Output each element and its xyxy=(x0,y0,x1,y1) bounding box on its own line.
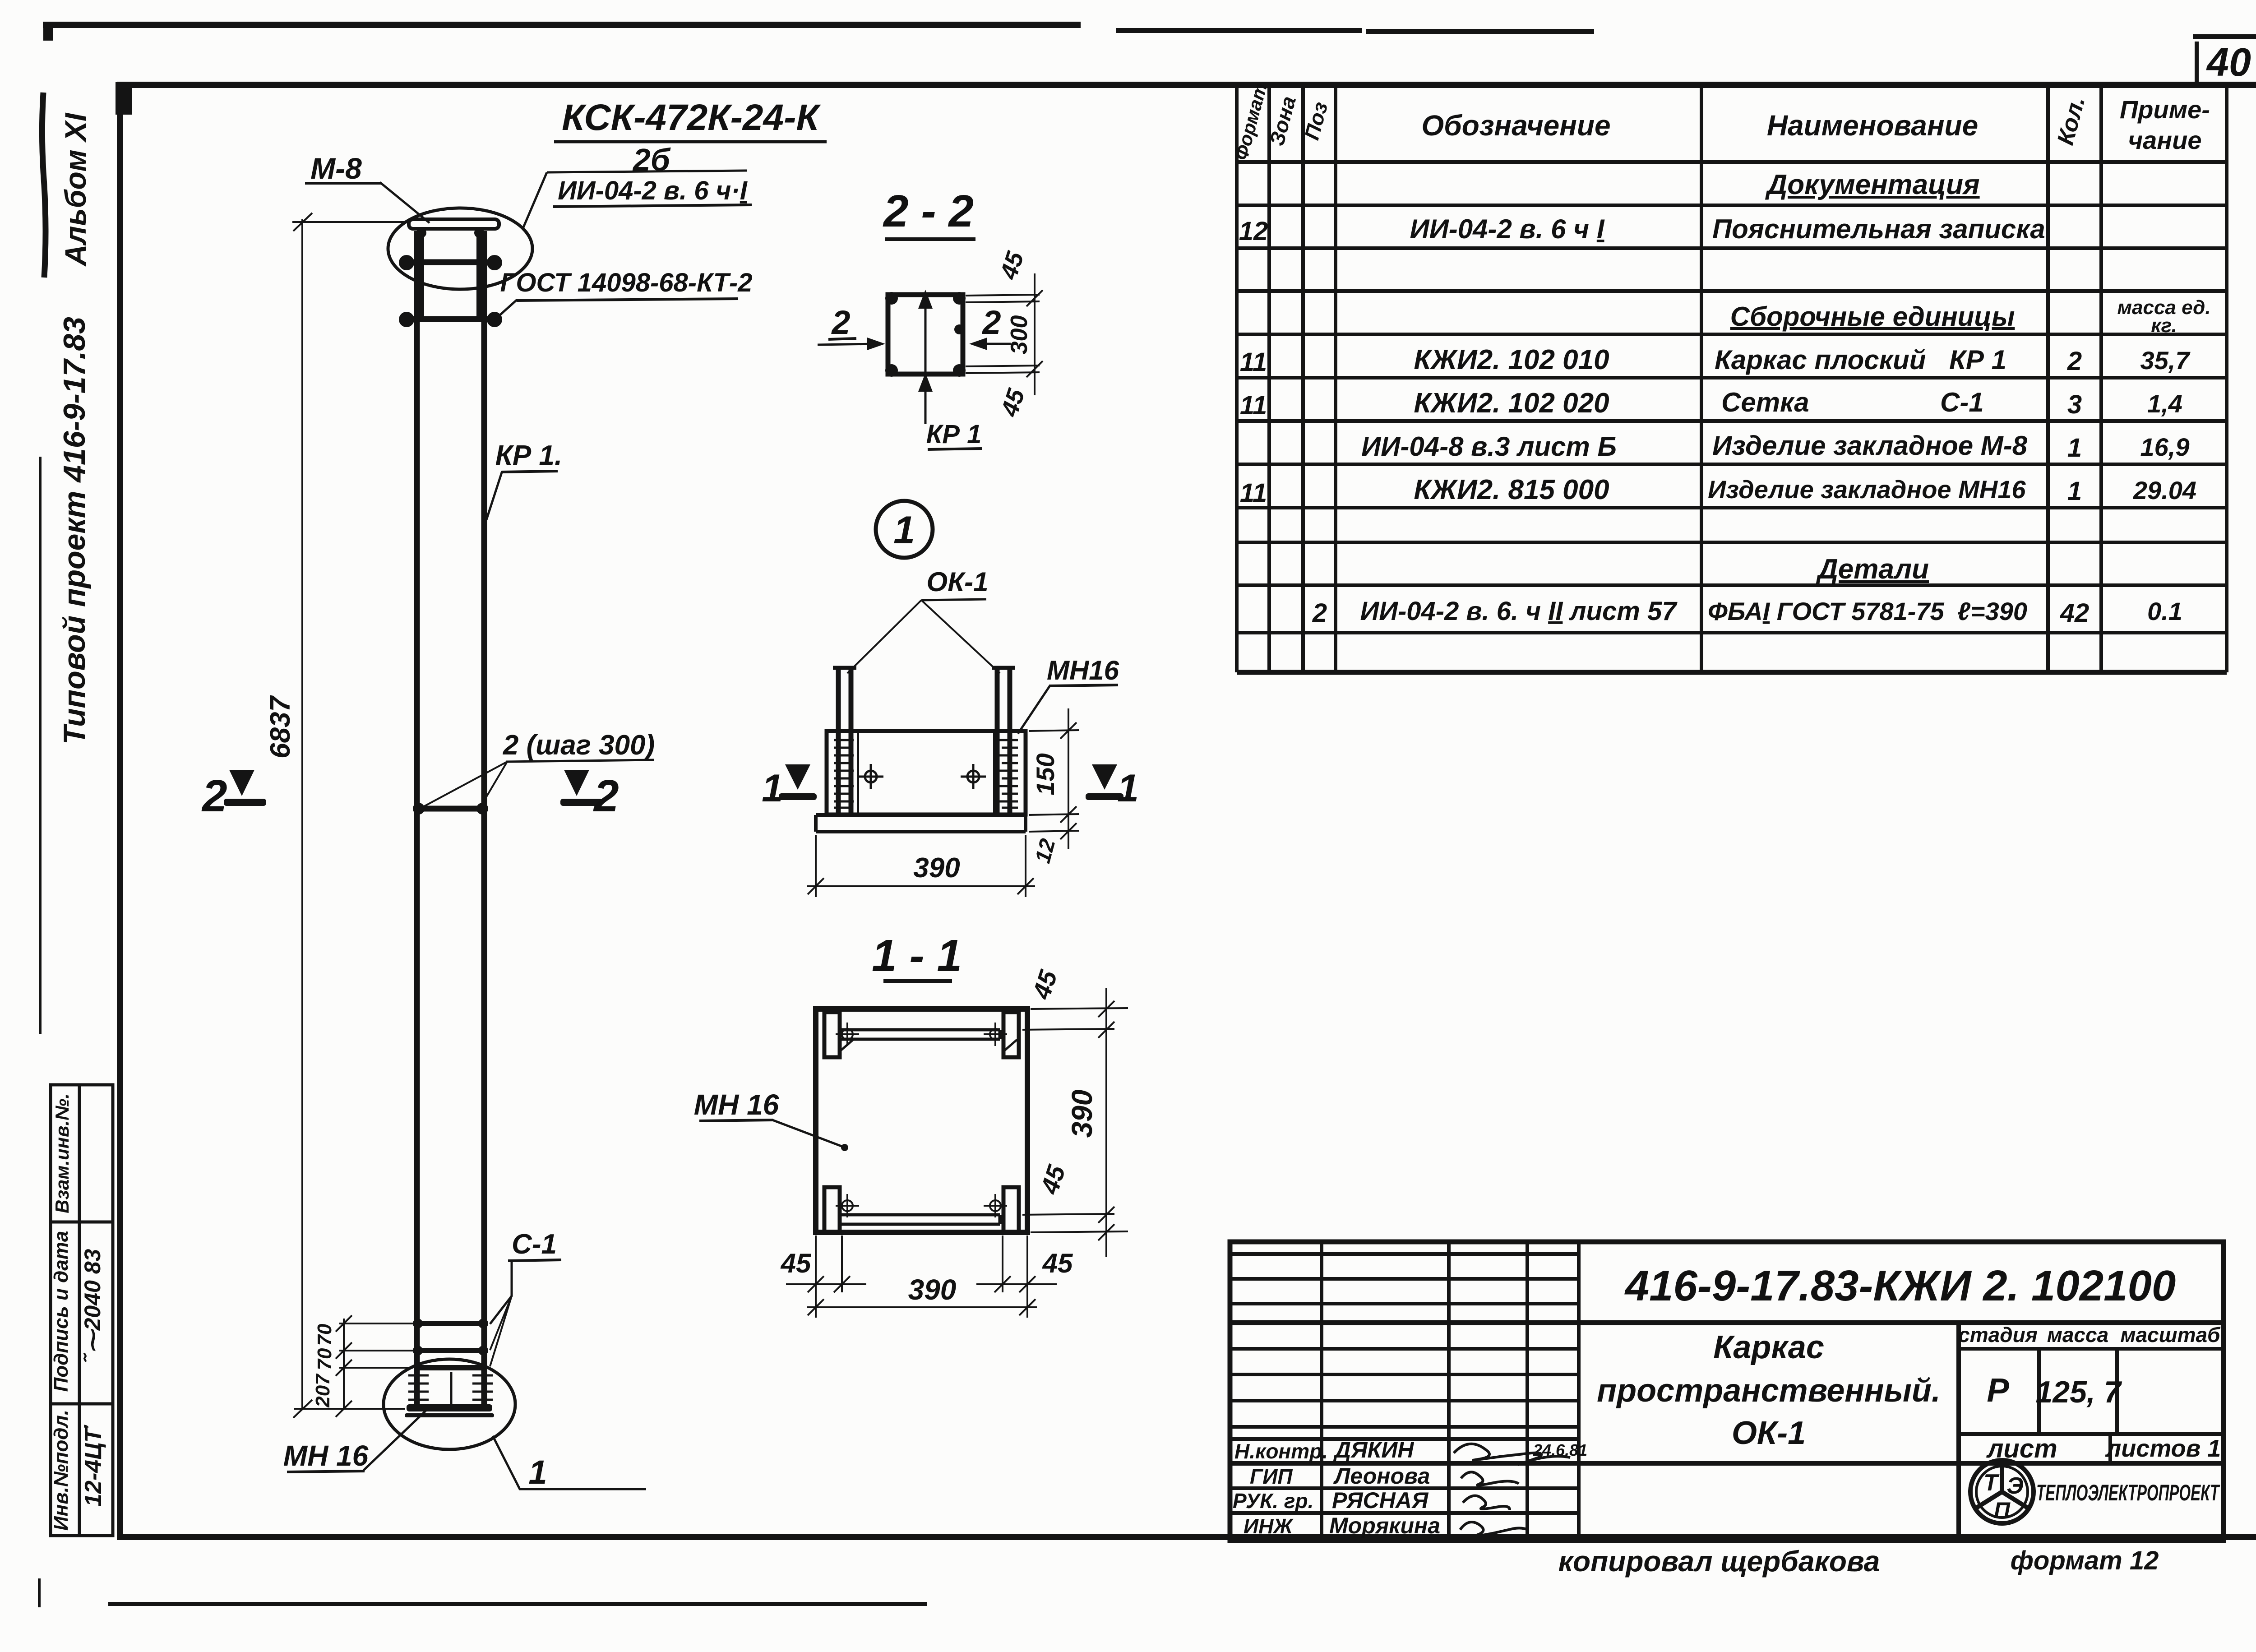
svg-text:ИИ-04-8 в.3 лист Б: ИИ-04-8 в.3 лист Б xyxy=(1361,431,1617,462)
svg-text:КР 1.: КР 1. xyxy=(495,440,562,471)
svg-text:Пояснительная записка: Пояснительная записка xyxy=(1712,214,2045,244)
svg-text:МН 16: МН 16 xyxy=(694,1088,779,1121)
svg-text:масса: масса xyxy=(2047,1323,2108,1347)
svg-text:масштаб: масштаб xyxy=(2120,1323,2221,1347)
svg-text:Изделие закладное М-8: Изделие закладное М-8 xyxy=(1712,430,2028,461)
svg-text:Т: Т xyxy=(1983,1470,2000,1496)
svg-text:ДЯКИН: ДЯКИН xyxy=(1333,1437,1414,1462)
svg-text:2: 2 xyxy=(981,304,1001,341)
svg-text:РУК. гр.: РУК. гр. xyxy=(1233,1489,1313,1513)
svg-text:0.1: 0.1 xyxy=(2147,597,2182,625)
svg-text:Морякина: Морякина xyxy=(1329,1513,1440,1538)
svg-text:45: 45 xyxy=(781,1248,812,1278)
svg-text:ИИ-04-2 в. 6 ч I: ИИ-04-2 в. 6 ч I xyxy=(1410,214,1605,244)
svg-text:Инв.№подл.: Инв.№подл. xyxy=(50,1410,72,1531)
svg-text:1: 1 xyxy=(2067,433,2082,463)
svg-text:ТЕПЛОЭЛЕКТРОПРОЕКТ: ТЕПЛОЭЛЕКТРОПРОЕКТ xyxy=(2036,1480,2220,1505)
svg-text:3: 3 xyxy=(2067,390,2082,419)
svg-text:1: 1 xyxy=(2067,477,2082,506)
svg-text:КЖИ2. 102 020: КЖИ2. 102 020 xyxy=(1414,388,1609,419)
svg-text:Каркас плоский: Каркас плоский xyxy=(1715,345,1926,375)
svg-text:207: 207 xyxy=(312,1373,334,1408)
svg-text:МН16: МН16 xyxy=(1047,655,1119,685)
svg-text:С-1: С-1 xyxy=(512,1229,557,1260)
svg-text:ОК-1: ОК-1 xyxy=(927,567,989,597)
svg-text:1: 1 xyxy=(893,509,915,552)
svg-text:42: 42 xyxy=(2060,598,2090,628)
svg-text:45: 45 xyxy=(1042,1248,1073,1278)
svg-text:КЖИ2. 102 010: КЖИ2. 102 010 xyxy=(1414,344,1609,375)
svg-text:Приме-: Приме- xyxy=(2120,95,2210,124)
svg-text:КР 1: КР 1 xyxy=(926,420,982,449)
svg-text:РЯСНАЯ: РЯСНАЯ xyxy=(1332,1488,1429,1513)
svg-text:70: 70 xyxy=(314,1348,336,1370)
svg-text:2 (шаг 300): 2 (шаг 300) xyxy=(503,730,655,761)
svg-text:кг.: кг. xyxy=(2151,315,2177,337)
svg-text:11: 11 xyxy=(1240,478,1267,508)
svg-text:Документация: Документация xyxy=(1765,169,1979,200)
svg-text:1: 1 xyxy=(762,767,783,810)
svg-text:Взам.инв.№.: Взам.инв.№. xyxy=(51,1093,73,1213)
svg-text:С-1: С-1 xyxy=(1940,387,1984,417)
svg-text:формат 12: формат 12 xyxy=(2011,1546,2159,1575)
svg-text:Обозначение: Обозначение xyxy=(1421,109,1610,142)
svg-text:Э: Э xyxy=(2006,1473,2023,1499)
svg-text:ИИ-04-2 в. 6. ч II лист 57: ИИ-04-2 в. 6. ч II лист 57 xyxy=(1360,597,1678,626)
svg-text:Альбом XI: Альбом XI xyxy=(59,112,92,267)
svg-text:ГОСТ 14098-68-КТ-2: ГОСТ 14098-68-КТ-2 xyxy=(500,268,753,297)
svg-text:2: 2 xyxy=(1312,598,1327,628)
svg-text:стадия: стадия xyxy=(1958,1323,2038,1347)
svg-text:1,4: 1,4 xyxy=(2147,389,2182,418)
svg-text:2: 2 xyxy=(2067,347,2082,376)
svg-text:П: П xyxy=(1994,1498,2011,1523)
svg-text:ИНЖ: ИНЖ xyxy=(1244,1514,1294,1538)
svg-text:1: 1 xyxy=(528,1453,547,1491)
svg-text:КСК-472К-24-К: КСК-472К-24-К xyxy=(562,97,821,138)
svg-text:МН 16: МН 16 xyxy=(283,1439,369,1472)
svg-text:Н.контр.: Н.контр. xyxy=(1234,1439,1328,1463)
svg-text:пространственный.: пространственный. xyxy=(1597,1373,1941,1409)
svg-text:390: 390 xyxy=(1066,1090,1098,1138)
svg-text:Детали: Детали xyxy=(1816,554,1929,585)
svg-text:Подпись и дата: Подпись и дата xyxy=(50,1231,72,1392)
svg-text:12: 12 xyxy=(1239,217,1268,246)
svg-text:2 - 2: 2 - 2 xyxy=(883,186,974,236)
svg-text:КЖИ2. 815 000: КЖИ2. 815 000 xyxy=(1414,474,1609,505)
svg-text:1: 1 xyxy=(1117,767,1139,810)
svg-text:2: 2 xyxy=(593,771,619,821)
svg-text:М-8: М-8 xyxy=(310,152,362,185)
svg-text:1 - 1: 1 - 1 xyxy=(872,930,962,981)
svg-text:КР 1: КР 1 xyxy=(1949,345,2006,375)
svg-text:29.04: 29.04 xyxy=(2133,476,2196,504)
svg-text:ФБАI ГОСТ 5781-75: ФБАI ГОСТ 5781-75 xyxy=(1708,597,1944,625)
svg-text:11: 11 xyxy=(1240,391,1267,420)
svg-text:125, 7: 125, 7 xyxy=(2035,1375,2122,1409)
svg-text:300: 300 xyxy=(1006,315,1032,355)
svg-text:70: 70 xyxy=(314,1323,336,1346)
svg-text:Сетка: Сетка xyxy=(1721,387,1809,417)
svg-text:2: 2 xyxy=(201,771,227,821)
svg-text:150: 150 xyxy=(1031,753,1059,795)
svg-text:12-4ЦТ҆: 12-4ЦТ҆ xyxy=(80,1425,106,1507)
svg-text:35,7: 35,7 xyxy=(2140,346,2191,375)
svg-text:листов 1: листов 1 xyxy=(2105,1435,2221,1462)
svg-text:Каркас: Каркас xyxy=(1713,1329,1824,1365)
svg-text:᷉᷉ ⁓2040 83: ᷉᷉ ⁓2040 83 xyxy=(80,1249,105,1362)
svg-text:16,9: 16,9 xyxy=(2140,433,2190,461)
svg-text:ℓ=390: ℓ=390 xyxy=(1957,597,2027,625)
svg-text:11: 11 xyxy=(1240,347,1267,377)
svg-text:чание: чание xyxy=(2128,126,2202,154)
svg-text:Леонова: Леонова xyxy=(1333,1463,1430,1489)
svg-text:ОК-1: ОК-1 xyxy=(1732,1415,1806,1451)
svg-text:416-9-17.83-КЖИ 2. 102100: 416-9-17.83-КЖИ 2. 102100 xyxy=(1624,1262,2176,1310)
svg-text:Р: Р xyxy=(1987,1371,2009,1409)
svg-text:390: 390 xyxy=(913,852,960,884)
svg-text:Наименование: Наименование xyxy=(1767,109,1978,142)
svg-text:Сборочные единицы: Сборочные единицы xyxy=(1730,301,2015,332)
svg-text:40: 40 xyxy=(2206,40,2251,84)
svg-text:ГИП: ГИП xyxy=(1250,1465,1293,1488)
svg-text:6837: 6837 xyxy=(265,695,296,759)
svg-text:2: 2 xyxy=(831,304,850,341)
svg-text:ИИ-04-2 в. 6 ч·I: ИИ-04-2 в. 6 ч·I xyxy=(558,176,748,205)
svg-text:390: 390 xyxy=(908,1273,957,1306)
svg-text:копировал щербакова: копировал щербакова xyxy=(1558,1545,1880,1578)
svg-text:Типовой проект 416-9-17.83: Типовой проект 416-9-17.83 xyxy=(57,317,92,745)
svg-text:Изделие закладное МН16: Изделие закладное МН16 xyxy=(1708,475,2026,504)
